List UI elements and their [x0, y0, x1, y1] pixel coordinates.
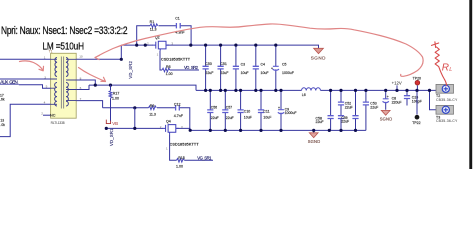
svg-text:+12V: +12V [392, 81, 402, 86]
svg-text:10uF: 10uF [244, 116, 252, 120]
screen edge black bar [469, 0, 472, 169]
capacitor C53 [365, 90, 367, 130]
wire secondary pin 8 [76, 80, 95, 85]
svg-text:Q4: Q4 [166, 119, 171, 123]
annotation load resistor sketch R_L [432, 42, 447, 86]
svg-text:VB: VB [112, 121, 118, 126]
capacitor C9 polarized [280, 90, 282, 130]
transformer secondary winding 2 [66, 83, 68, 106]
capacitor C58 [330, 90, 332, 130]
node VD_SR2 [120, 58, 123, 61]
ground SGND top [311, 48, 326, 60]
wire secondary pin 7 [76, 101, 102, 108]
svg-text:22uF: 22uF [205, 71, 213, 75]
wire R17 branch upper [110, 85, 112, 90]
svg-text:L: L [449, 67, 452, 73]
wire left branch to pin 4 [0, 104, 51, 136]
wire T3 branch [430, 90, 437, 109]
ground SGND C8 [380, 110, 393, 121]
svg-text:22uF: 22uF [220, 71, 228, 75]
capacitor C1 [176, 23, 180, 28]
svg-text:+: + [271, 66, 273, 70]
svg-text:TP22: TP22 [412, 121, 420, 125]
transistor Q2 [153, 41, 170, 51]
capacitor C8 polarized [385, 90, 387, 109]
wire left to pin 5 [0, 78, 51, 80]
svg-text:L6: L6 [302, 93, 306, 97]
svg-text:R: R [442, 62, 449, 73]
wire aux to pin 3 [19, 85, 51, 88]
capacitor C10 [240, 90, 242, 130]
svg-text:R17: R17 [113, 92, 120, 96]
wire top rail SGND [121, 45, 318, 48]
transistor Q4 [162, 124, 179, 134]
capacitor C11 [260, 90, 262, 130]
svg-text:2: 2 [41, 111, 43, 115]
svg-text:VG_SR1: VG_SR1 [197, 156, 212, 161]
svg-text:VD_SR2: VD_SR2 [128, 60, 133, 78]
svg-text:.0k: .0k [0, 123, 5, 127]
svg-text:C50: C50 [205, 62, 211, 66]
capacitor C3 [235, 45, 237, 90]
svg-text:C56: C56 [211, 106, 217, 110]
transformer T1 body [51, 53, 77, 118]
resistor R9 [149, 106, 157, 110]
svg-text:T1: T1 [49, 49, 53, 53]
svg-text:C3: C3 [241, 63, 246, 67]
wire Q4 gate [170, 134, 177, 160]
node bottom rail left end [105, 127, 108, 130]
capacitor C50 [205, 45, 207, 90]
capacitor C5 polarized [275, 45, 277, 90]
wire VD_SR1 drop [134, 108, 136, 129]
wire snubber1 loop [137, 26, 191, 45]
svg-text:11.3: 11.3 [150, 28, 157, 32]
node bottom rail junctions [209, 129, 357, 132]
svg-text:C51: C51 [220, 62, 226, 66]
test point TP20 [416, 85, 418, 90]
inductor L6 [302, 88, 321, 91]
wire Q2 gate [160, 51, 162, 70]
svg-text:C12: C12 [174, 102, 181, 106]
wire gate to VG_SR1 [184, 159, 213, 161]
wire gate to VG_SR2 [170, 69, 199, 71]
svg-text:RLTI-1338: RLTI-1338 [51, 121, 65, 125]
svg-text:10uF: 10uF [241, 71, 249, 75]
svg-text:R15: R15 [178, 156, 185, 160]
net flag VB [106, 120, 111, 124]
svg-text:10uF: 10uF [263, 116, 271, 120]
node pin8 junction [94, 84, 97, 87]
svg-text:C11: C11 [263, 110, 269, 114]
capacitor C12 [176, 105, 180, 110]
svg-text:CB35-36-CY: CB35-36-CY [436, 119, 458, 123]
svg-text:22uF: 22uF [226, 116, 234, 120]
resistor R17 [109, 91, 112, 98]
wire R17 branch lower [110, 98, 112, 121]
svg-text:C5: C5 [282, 63, 287, 67]
node snubber2 right [189, 129, 192, 132]
svg-text:4.7nF: 4.7nF [174, 114, 184, 118]
wire VOUT rail left [89, 85, 196, 90]
resistor R1 [150, 24, 158, 28]
power flag +12V [396, 85, 398, 90]
svg-text:.6k: .6k [0, 98, 5, 102]
wire VOUT rail mid [196, 89, 436, 91]
svg-text:1000uF: 1000uF [285, 111, 297, 115]
transformer primary winding 1 [55, 58, 57, 77]
svg-text:10uF: 10uF [261, 71, 269, 75]
svg-text:R9: R9 [150, 104, 155, 108]
node R17 tap [109, 84, 112, 87]
svg-text:R1: R1 [150, 20, 155, 24]
capacitor C51 [220, 45, 222, 90]
svg-text:1.00: 1.00 [112, 97, 119, 101]
wire snubber2 row [103, 108, 190, 131]
svg-text:CSD18535KTTT: CSD18535KTTT [170, 142, 200, 146]
capacitor C4 [255, 45, 257, 90]
transformer secondary winding 1 [66, 58, 68, 77]
svg-text:22uF: 22uF [370, 105, 378, 109]
wire secondary pin 10 [76, 58, 121, 60]
svg-text:NC: NC [50, 114, 56, 118]
svg-text:TP20: TP20 [413, 77, 421, 81]
svg-text:AUX_GEN: AUX_GEN [0, 79, 18, 84]
svg-text:C10: C10 [244, 110, 250, 114]
transformer NC pin stub [43, 114, 51, 116]
test point TP22 [416, 90, 418, 114]
svg-text:C4: C4 [261, 63, 266, 67]
wire secondary pin 6 [76, 85, 89, 89]
wire bottom rail [106, 128, 366, 130]
svg-text:C57: C57 [226, 106, 232, 110]
wire AUX_GEN underline [0, 83, 19, 85]
svg-text:C1: C1 [175, 17, 180, 21]
node snubber2 left [133, 106, 136, 109]
capacitor C52 [340, 90, 342, 130]
capacitor C57 [224, 90, 226, 130]
svg-text:SGND: SGND [311, 55, 326, 60]
ground SGND bottom [308, 130, 321, 144]
svg-text:VG_SR2: VG_SR2 [184, 65, 199, 70]
svg-text:11.3: 11.3 [149, 113, 156, 117]
svg-text:220uF: 220uF [392, 101, 402, 105]
svg-text:CB35-36-CY: CB35-36-CY [436, 98, 458, 102]
svg-text:CSD18535KTTT: CSD18535KTTT [161, 57, 191, 61]
resistor R6 [162, 68, 170, 72]
svg-text:VD_SR1: VD_SR1 [109, 128, 114, 146]
svg-text:Npri: Naux: Nsec1: Nsec2 =33:3: Npri: Naux: Nsec1: Nsec2 =33:3:2:2 [1, 25, 128, 38]
svg-text:22uF: 22uF [345, 105, 353, 109]
capacitor C56 [209, 90, 211, 130]
node top rail junctions [204, 44, 277, 47]
svg-text:SGND: SGND [308, 139, 321, 144]
svg-text:1.00: 1.00 [176, 165, 183, 169]
resistor R15 [177, 159, 185, 163]
svg-text:22uF: 22uF [341, 119, 349, 123]
annotation arrow lower [79, 68, 106, 82]
svg-text:+: + [278, 106, 280, 110]
node VOUT rail junctions [204, 89, 431, 92]
annotation long curve with arrow [95, 24, 423, 76]
svg-text:SGND: SGND [380, 116, 393, 121]
capacitor C26 [406, 90, 408, 105]
svg-text:1.00: 1.00 [166, 72, 173, 76]
svg-text:13: 13 [0, 119, 4, 123]
transformer core [61, 57, 63, 109]
svg-text:22uF: 22uF [211, 116, 219, 120]
node snubber1 right [189, 44, 192, 47]
annotation arrow left [20, 61, 44, 71]
capacitor C59 [338, 116, 344, 119]
node Q2 drain [144, 44, 147, 47]
connector T2 [436, 84, 454, 93]
transformer winding stubs [51, 59, 77, 104]
node snubber1 left [135, 44, 138, 47]
connector T3 [436, 105, 454, 114]
svg-text:22uF: 22uF [316, 120, 324, 124]
svg-text:10: 10 [79, 55, 83, 59]
wire VD_SR2 riser [120, 45, 122, 59]
transformer primary winding 2 [55, 83, 57, 106]
svg-text:R6: R6 [166, 65, 171, 69]
svg-text:1000uF: 1000uF [282, 71, 294, 75]
svg-text:+: + [387, 95, 389, 99]
node VD_SR1 drop [133, 127, 136, 130]
capacitor C60 mid [355, 90, 357, 130]
wire primary pin 1 [0, 58, 51, 60]
